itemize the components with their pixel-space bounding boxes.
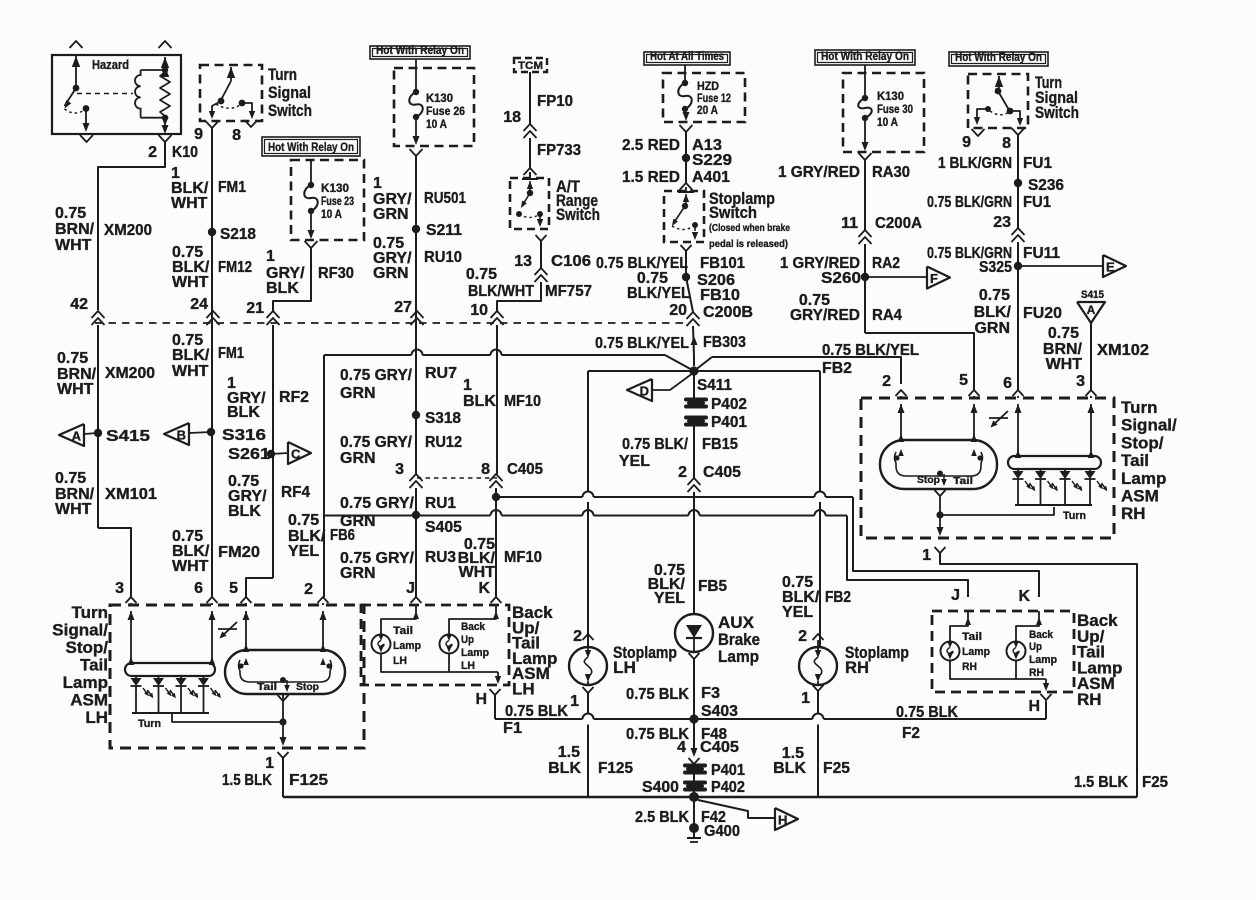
svg-text:MF10: MF10	[504, 393, 541, 410]
svg-text:XM101: XM101	[105, 486, 157, 503]
svg-text:S400: S400	[642, 779, 679, 796]
svg-text:MF10: MF10	[504, 549, 542, 566]
svg-text:0.75 BLK/: 0.75 BLK/	[622, 436, 688, 453]
svg-text:0.75 BLK: 0.75 BLK	[896, 704, 958, 721]
svg-text:10 A: 10 A	[426, 119, 447, 131]
svg-text:Hazard: Hazard	[92, 58, 129, 72]
svg-text:0.75 GRY/: 0.75 GRY/	[340, 495, 415, 512]
svg-text:RF4: RF4	[281, 484, 310, 501]
svg-text:Turn: Turn	[71, 603, 108, 622]
svg-text:1: 1	[373, 175, 382, 192]
svg-text:Switch: Switch	[268, 101, 312, 120]
svg-text:3: 3	[1076, 373, 1085, 390]
svg-text:S261: S261	[228, 446, 270, 463]
svg-text:RU12: RU12	[425, 434, 462, 451]
svg-text:BLK: BLK	[463, 393, 496, 410]
svg-text:Stop: Stop	[917, 474, 940, 486]
svg-text:LH: LH	[461, 660, 475, 672]
svg-text:Tail: Tail	[393, 625, 413, 637]
svg-text:9: 9	[194, 126, 203, 143]
svg-text:FB2: FB2	[825, 589, 851, 606]
svg-text:F125: F125	[598, 760, 633, 777]
svg-text:XM102: XM102	[1097, 342, 1149, 359]
svg-text:9: 9	[962, 134, 971, 151]
svg-text:1.5 RED: 1.5 RED	[622, 169, 680, 186]
svg-text:Signal/: Signal/	[52, 621, 108, 640]
svg-text:10: 10	[470, 302, 488, 319]
svg-text:23: 23	[993, 214, 1011, 231]
svg-text:K130: K130	[877, 91, 904, 103]
svg-text:0.75 BLK/YEL: 0.75 BLK/YEL	[822, 342, 919, 359]
svg-text:S260: S260	[821, 270, 861, 287]
svg-text:Lamp: Lamp	[962, 646, 990, 658]
svg-text:27: 27	[394, 299, 412, 316]
svg-text:8: 8	[232, 127, 241, 144]
svg-text:Up: Up	[1029, 641, 1042, 653]
svg-text:3: 3	[115, 580, 124, 597]
svg-text:S229: S229	[692, 152, 732, 169]
svg-text:S405: S405	[425, 519, 462, 536]
svg-text:1.5: 1.5	[558, 744, 580, 761]
svg-text:K10: K10	[172, 144, 198, 161]
svg-text:A: A	[1087, 303, 1096, 317]
svg-text:FU1: FU1	[1023, 155, 1052, 172]
svg-text:BRN/: BRN/	[55, 221, 95, 238]
svg-text:F25: F25	[823, 760, 850, 777]
svg-text:8: 8	[481, 461, 490, 478]
svg-text:FU1: FU1	[1023, 194, 1051, 211]
svg-text:GRN: GRN	[340, 385, 376, 402]
svg-text:0.75: 0.75	[1048, 325, 1079, 342]
svg-text:WHT: WHT	[55, 501, 92, 518]
svg-text:24: 24	[190, 296, 208, 313]
svg-text:FB5: FB5	[698, 578, 727, 595]
svg-text:RF30: RF30	[318, 265, 354, 282]
svg-text:0.75 GRY/: 0.75 GRY/	[340, 367, 413, 384]
svg-text:D: D	[640, 384, 649, 399]
svg-text:RA2: RA2	[872, 255, 900, 272]
svg-text:RH: RH	[962, 661, 977, 673]
svg-text:H: H	[475, 691, 487, 708]
svg-text:FM12: FM12	[218, 259, 252, 276]
svg-text:C106: C106	[551, 253, 591, 270]
svg-text:10 A: 10 A	[877, 117, 898, 129]
svg-text:Lamp: Lamp	[1029, 654, 1057, 666]
svg-text:RU7: RU7	[425, 365, 457, 382]
svg-text:0.75 BLK: 0.75 BLK	[505, 703, 568, 720]
svg-text:42: 42	[70, 296, 88, 313]
svg-text:2: 2	[678, 464, 687, 481]
svg-text:BLK/YEL: BLK/YEL	[627, 285, 690, 302]
svg-text:RA30: RA30	[872, 164, 910, 181]
svg-text:5: 5	[229, 580, 238, 597]
svg-text:RH: RH	[1077, 690, 1102, 709]
svg-text:Turn: Turn	[1121, 398, 1158, 417]
svg-text:S415: S415	[106, 428, 150, 445]
svg-text:E: E	[1106, 260, 1115, 275]
svg-text:FP733: FP733	[537, 142, 581, 159]
svg-text:WHT: WHT	[459, 564, 496, 581]
svg-text:S316: S316	[222, 427, 266, 444]
svg-text:BLK/: BLK/	[172, 347, 210, 364]
svg-text:S325: S325	[979, 259, 1012, 276]
svg-text:Lamp: Lamp	[718, 647, 759, 666]
svg-text:1: 1	[922, 547, 931, 564]
svg-text:0.75: 0.75	[55, 470, 86, 487]
svg-text:Back: Back	[1029, 629, 1054, 641]
svg-text:BLK/WHT: BLK/WHT	[468, 283, 534, 300]
svg-text:Tail: Tail	[962, 631, 982, 643]
svg-text:BLK: BLK	[548, 760, 581, 777]
svg-text:BLK/: BLK/	[974, 304, 1012, 321]
svg-text:C200B: C200B	[703, 304, 753, 321]
svg-text:FP10: FP10	[537, 93, 573, 110]
svg-text:WHT: WHT	[55, 237, 92, 254]
svg-text:B: B	[177, 428, 186, 443]
svg-text:FB15: FB15	[702, 436, 738, 453]
svg-text:G400: G400	[704, 823, 740, 840]
svg-text:Lamp: Lamp	[393, 640, 421, 652]
svg-text:2: 2	[798, 628, 807, 645]
svg-text:Signal: Signal	[268, 83, 311, 102]
svg-text:RU10: RU10	[424, 249, 462, 266]
svg-text:LH: LH	[613, 658, 636, 677]
svg-text:20 A: 20 A	[697, 105, 718, 117]
svg-text:1: 1	[570, 693, 579, 710]
svg-text:ASM: ASM	[1121, 487, 1159, 506]
svg-text:S218: S218	[220, 226, 256, 243]
svg-text:2: 2	[148, 144, 157, 161]
svg-text:13: 13	[514, 253, 532, 270]
svg-text:1.5 BLK: 1.5 BLK	[222, 772, 272, 789]
svg-text:F1: F1	[503, 720, 522, 737]
svg-text:Fuse 12: Fuse 12	[697, 93, 731, 105]
svg-text:RF2: RF2	[279, 389, 309, 406]
svg-text:GRN: GRN	[373, 265, 409, 282]
svg-text:6: 6	[194, 580, 203, 597]
svg-text:YEL: YEL	[288, 543, 319, 560]
svg-text:GRN: GRN	[974, 320, 1010, 337]
svg-text:K130: K130	[321, 183, 349, 195]
svg-text:10 A: 10 A	[321, 209, 342, 221]
svg-text:2: 2	[573, 628, 582, 645]
svg-text:A401: A401	[692, 169, 730, 186]
svg-text:K: K	[1018, 588, 1030, 605]
svg-text:K130: K130	[426, 93, 453, 105]
svg-text:2: 2	[882, 373, 891, 390]
svg-text:18: 18	[503, 109, 521, 126]
svg-text:Switch: Switch	[709, 203, 757, 222]
svg-text:Tail: Tail	[953, 475, 973, 487]
svg-text:WHT: WHT	[172, 363, 209, 380]
svg-text:Hot With Relay On: Hot With Relay On	[376, 43, 464, 57]
svg-text:P402: P402	[711, 779, 745, 796]
svg-text:WHT: WHT	[57, 381, 94, 398]
svg-text:P402: P402	[711, 396, 747, 413]
svg-text:RA4: RA4	[872, 307, 902, 324]
svg-text:Back: Back	[461, 621, 486, 633]
svg-text:S318: S318	[425, 410, 461, 427]
svg-text:C: C	[291, 447, 301, 462]
svg-text:20: 20	[669, 302, 687, 319]
svg-text:WHT: WHT	[172, 274, 209, 291]
svg-text:WHT: WHT	[172, 558, 209, 575]
svg-text:BLK: BLK	[266, 280, 299, 297]
svg-text:S211: S211	[426, 222, 462, 239]
svg-text:Switch: Switch	[1035, 103, 1079, 122]
svg-text:Turn: Turn	[1063, 510, 1086, 522]
svg-text:S236: S236	[1028, 177, 1064, 194]
svg-text:FU11: FU11	[1023, 245, 1060, 262]
svg-text:Up: Up	[461, 634, 474, 646]
svg-text:Tail: Tail	[1121, 451, 1149, 470]
svg-text:J: J	[406, 580, 415, 597]
svg-text:FM1: FM1	[218, 345, 244, 362]
svg-text:0.75: 0.75	[57, 350, 88, 367]
svg-text:Hot At All Times: Hot At All Times	[650, 49, 724, 63]
svg-text:RH: RH	[845, 658, 869, 677]
svg-text:MF757: MF757	[545, 283, 592, 300]
svg-text:Lamp: Lamp	[63, 673, 108, 692]
svg-text:C200A: C200A	[875, 215, 922, 232]
svg-text:0.75: 0.75	[288, 512, 319, 529]
svg-text:K: K	[478, 580, 490, 597]
svg-text:Lamp: Lamp	[1121, 469, 1166, 488]
svg-text:FB101: FB101	[700, 255, 745, 272]
svg-text:11: 11	[841, 215, 858, 232]
svg-text:F125: F125	[289, 772, 328, 789]
svg-text:P401: P401	[711, 762, 745, 779]
svg-text:1 BLK/GRN: 1 BLK/GRN	[938, 155, 1012, 172]
svg-text:FB303: FB303	[703, 334, 746, 351]
svg-text:2: 2	[304, 581, 313, 598]
svg-text:C405: C405	[507, 461, 543, 478]
svg-text:0.75: 0.75	[55, 205, 86, 222]
svg-text:1: 1	[801, 690, 810, 707]
svg-text:Turn: Turn	[138, 718, 161, 730]
svg-text:BLK: BLK	[773, 760, 806, 777]
svg-text:Lamp: Lamp	[461, 647, 489, 659]
svg-text:5: 5	[959, 372, 968, 389]
svg-text:FB2: FB2	[822, 360, 852, 377]
svg-text:HZD: HZD	[697, 81, 719, 93]
svg-text:FU20: FU20	[1023, 305, 1062, 322]
svg-text:FM1: FM1	[218, 179, 246, 196]
svg-text:Hot With Relay On: Hot With Relay On	[955, 50, 1042, 64]
svg-text:1.5 BLK: 1.5 BLK	[1074, 774, 1128, 791]
svg-text:F25: F25	[1142, 774, 1168, 791]
svg-text:GRN: GRN	[340, 565, 376, 582]
svg-text:J: J	[951, 587, 960, 604]
svg-text:RU501: RU501	[424, 190, 466, 207]
svg-text:6: 6	[1003, 375, 1012, 392]
svg-text:WHT: WHT	[1046, 356, 1083, 373]
svg-text:RU1: RU1	[425, 495, 456, 512]
svg-text:GRN: GRN	[373, 206, 409, 223]
svg-text:P401: P401	[711, 414, 747, 431]
svg-text:S411: S411	[697, 377, 732, 394]
svg-text:BLK: BLK	[228, 503, 261, 520]
svg-text:pedal is released): pedal is released)	[709, 238, 788, 250]
svg-text:FM20: FM20	[218, 544, 260, 561]
svg-text:1: 1	[463, 377, 472, 394]
svg-text:S415: S415	[1081, 289, 1104, 301]
svg-text:LH: LH	[512, 680, 535, 699]
svg-text:F3: F3	[701, 685, 720, 702]
svg-text:C405: C405	[700, 739, 739, 756]
svg-text:BLK: BLK	[227, 404, 260, 421]
svg-text:F: F	[930, 271, 938, 286]
svg-text:FB10: FB10	[700, 287, 740, 304]
svg-text:H: H	[778, 813, 787, 828]
svg-text:1: 1	[265, 755, 274, 772]
svg-text:WHT: WHT	[171, 195, 208, 212]
svg-text:S403: S403	[701, 703, 738, 720]
svg-text:0.75 BLK/GRN: 0.75 BLK/GRN	[927, 194, 1012, 211]
svg-text:8: 8	[1002, 135, 1011, 152]
svg-text:RH: RH	[1029, 667, 1044, 679]
svg-text:GRN: GRN	[340, 450, 376, 467]
svg-text:LH: LH	[85, 708, 108, 727]
svg-text:1: 1	[266, 248, 275, 265]
svg-text:Stop: Stop	[296, 681, 319, 693]
svg-text:H: H	[1028, 698, 1040, 715]
svg-text:1 GRY/RED: 1 GRY/RED	[778, 164, 860, 181]
svg-text:Stop/: Stop/	[66, 638, 109, 657]
svg-text:(Closed when brake: (Closed when brake	[709, 222, 790, 234]
svg-text:0.75: 0.75	[979, 287, 1010, 304]
svg-text:Tail: Tail	[257, 681, 277, 693]
svg-text:Hot With Relay On: Hot With Relay On	[821, 49, 909, 63]
svg-text:C405: C405	[703, 464, 741, 481]
svg-text:2.5 RED: 2.5 RED	[622, 137, 680, 154]
svg-text:RU3: RU3	[425, 549, 456, 566]
svg-text:XM200: XM200	[105, 365, 155, 382]
svg-text:0.75: 0.75	[466, 266, 497, 283]
svg-text:0.75 BLK: 0.75 BLK	[626, 686, 689, 703]
svg-text:0.75 GRY/: 0.75 GRY/	[340, 434, 413, 451]
svg-text:ASM: ASM	[70, 691, 108, 710]
svg-text:Fuse 30: Fuse 30	[877, 104, 913, 116]
svg-text:RH: RH	[1121, 504, 1146, 523]
svg-text:Switch: Switch	[556, 205, 600, 224]
svg-text:A: A	[72, 429, 82, 444]
svg-text:Stop/: Stop/	[1121, 433, 1164, 452]
svg-text:F2: F2	[902, 725, 920, 742]
svg-text:4: 4	[677, 739, 686, 756]
svg-text:XM200: XM200	[104, 222, 152, 239]
svg-text:Signal/: Signal/	[1121, 416, 1177, 435]
svg-text:Tail: Tail	[80, 656, 108, 675]
svg-text:Fuse 23: Fuse 23	[321, 196, 354, 208]
svg-text:YEL: YEL	[782, 604, 813, 621]
svg-text:LH: LH	[393, 655, 407, 667]
svg-text:YEL: YEL	[654, 590, 685, 607]
svg-text:YEL: YEL	[619, 453, 650, 470]
svg-text:2.5 BLK: 2.5 BLK	[635, 809, 689, 826]
svg-text:21: 21	[246, 300, 264, 317]
svg-text:Turn: Turn	[268, 65, 297, 84]
svg-text:0.75 BLK/YEL: 0.75 BLK/YEL	[595, 335, 689, 352]
svg-text:Hot With Relay On: Hot With Relay On	[268, 140, 354, 154]
svg-text:GRY/RED: GRY/RED	[790, 307, 860, 324]
svg-text:3: 3	[395, 461, 404, 478]
svg-text:TCM: TCM	[518, 60, 543, 72]
svg-text:Fuse 26: Fuse 26	[426, 106, 465, 118]
